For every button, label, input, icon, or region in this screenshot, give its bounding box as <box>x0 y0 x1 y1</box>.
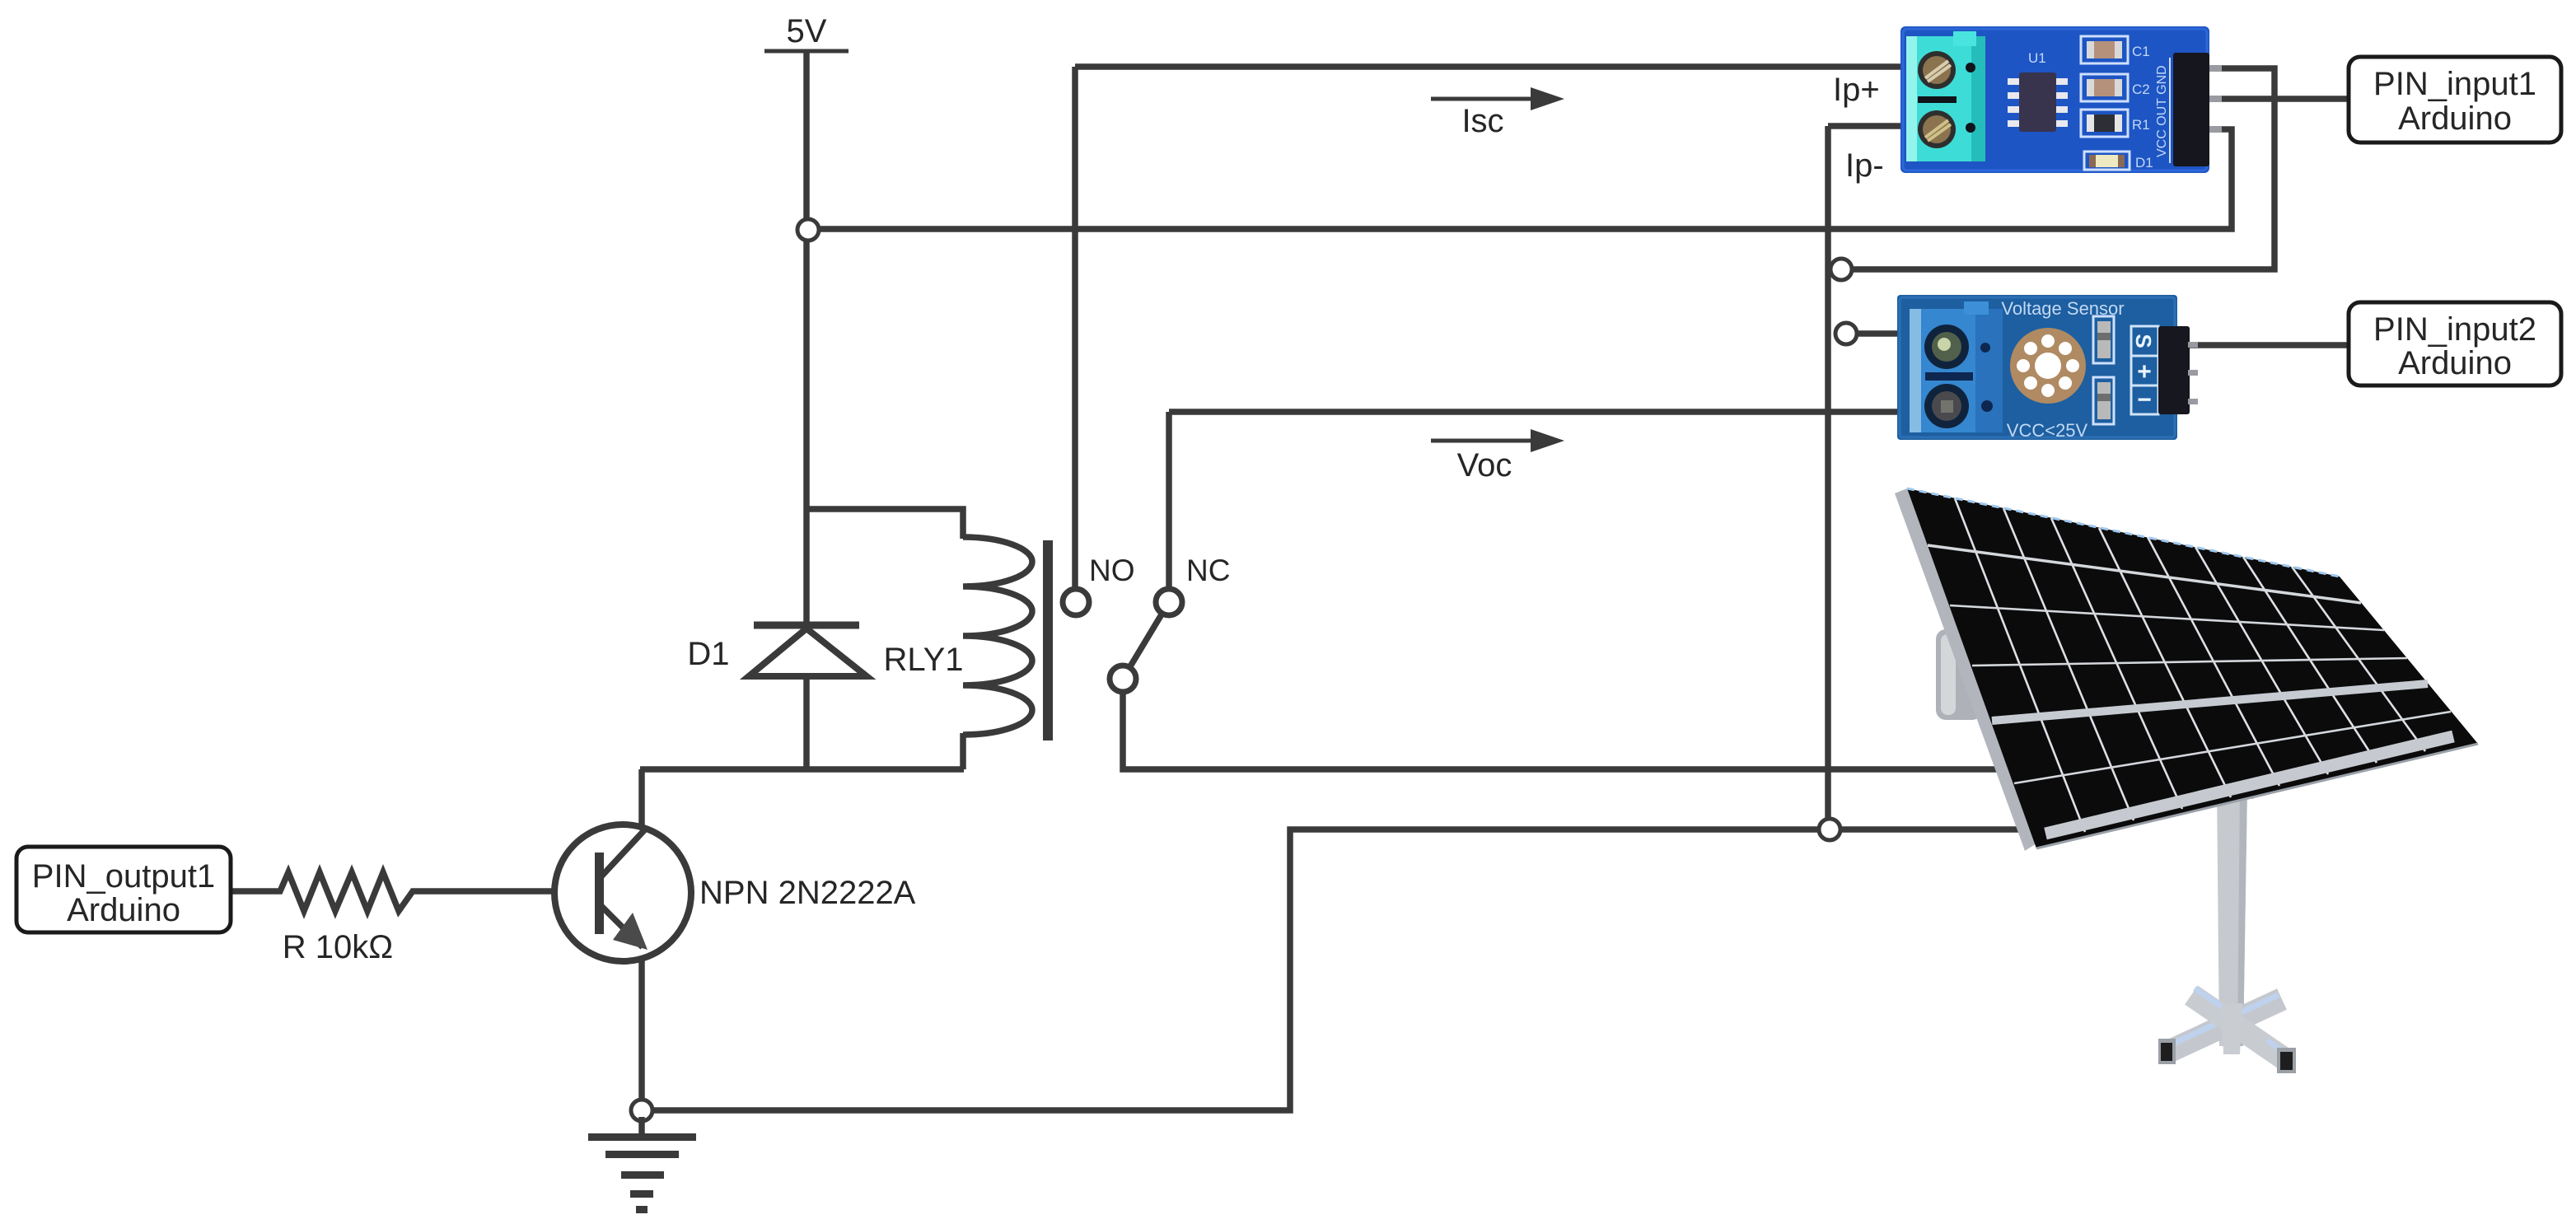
cross base arm nw-se <box>2191 995 2288 1062</box>
wire Voc run to voltage sensor VCC <box>1169 409 1919 415</box>
panel grid rows <box>1928 545 2451 783</box>
R1 <box>2081 110 2128 137</box>
current sensor module U1 (ACS712) <box>1900 26 2222 173</box>
svg-text:5V: 5V <box>787 13 827 49</box>
panel left frame <box>1895 488 2036 851</box>
wire bottom rail (collector - diode - coil) <box>640 766 964 773</box>
PIN_input1 Arduino box <box>2349 57 2561 142</box>
smd parts <box>2093 316 2114 363</box>
5V supply symbol <box>764 13 849 51</box>
wire sense common vertical <box>1825 126 1831 829</box>
svg-text:C2: C2 <box>2132 82 2150 97</box>
panel bottom frame rail <box>2045 736 2453 834</box>
svg-text:NPN 2N2222A: NPN 2N2222A <box>699 875 916 911</box>
wire 5V rail down to diode cathode <box>803 51 810 624</box>
svg-text:R1: R1 <box>2132 117 2150 133</box>
node B junction GND link <box>1830 259 1852 280</box>
relay RLY1 coil <box>883 537 1053 740</box>
wire Ip- stub <box>1828 123 1919 129</box>
resistor R1 10k <box>231 872 596 965</box>
C1 <box>2081 36 2128 63</box>
mounting plate <box>2211 779 2254 799</box>
svg-text:RLY1: RLY1 <box>883 642 963 678</box>
svg-text:Isc: Isc <box>1461 103 1503 139</box>
svg-text:PIN_input1: PIN_input1 <box>2373 66 2536 102</box>
svg-text:U1: U1 <box>2028 50 2046 66</box>
Voc voltage arrow <box>1431 429 1564 484</box>
wire switch common to panel positive <box>1123 690 2003 769</box>
wire NO contact drop <box>1072 67 1078 590</box>
wire emitter ground run to panel negative <box>642 829 2022 1110</box>
panel grid columns <box>1955 498 2425 832</box>
wire NC contact riser <box>1166 412 1172 589</box>
svg-text:S: S <box>2131 334 2156 348</box>
wire relay coil top feed <box>806 509 963 539</box>
relay common contact <box>1110 666 1136 692</box>
node E emitter junction <box>631 1100 652 1121</box>
base end caps <box>2158 1039 2176 1064</box>
svg-text:+: + <box>2137 358 2152 385</box>
terminal block <box>1910 309 2003 432</box>
svg-text:Arduino: Arduino <box>67 892 180 928</box>
D1 led <box>2084 152 2130 170</box>
svg-text:Voc: Voc <box>1457 447 1512 484</box>
svg-text:VCC OUT GND: VCC OUT GND <box>2155 65 2169 157</box>
voltage sensor module <box>1897 295 2198 441</box>
svg-text:PIN_input2: PIN_input2 <box>2373 311 2536 348</box>
ground <box>588 1133 696 1213</box>
pin header <box>2169 58 2171 163</box>
node D junction panel negative <box>1819 819 1840 840</box>
transistor Q1 NPN 2N2222A <box>554 769 916 1110</box>
diode D1 <box>687 625 867 676</box>
junction box cylinder behind panel <box>1936 629 1982 720</box>
solar panel assembly <box>1895 488 2478 1073</box>
svg-text:Ip+: Ip+ <box>1833 72 1880 108</box>
top edge highlight <box>1907 488 2340 577</box>
wire sensor OUT to PIN_input1 <box>2209 96 2349 102</box>
svg-text:NO: NO <box>1089 554 1135 587</box>
wire voltage sensor GND branch <box>1846 330 1907 337</box>
relay switch arm <box>1123 602 1169 679</box>
svg-text:D1: D1 <box>2135 155 2153 171</box>
svg-text:VCC<25V: VCC<25V <box>2007 420 2088 441</box>
wire sensor GND link <box>1840 68 2274 269</box>
wire voltage sensor S to PIN_input2 <box>2189 342 2349 348</box>
Isc current arrow <box>1431 87 1564 139</box>
svg-text:C1: C1 <box>2132 44 2150 59</box>
C2 <box>2081 74 2128 101</box>
svg-text:Arduino: Arduino <box>2398 100 2512 137</box>
node C junction voltage sensor GND <box>1835 323 1857 344</box>
gold ring <box>2010 328 2086 404</box>
svg-text:Arduino: Arduino <box>2398 345 2512 381</box>
relay NO contact <box>1063 589 1089 615</box>
header <box>2158 326 2190 414</box>
cross base arm sw-ne <box>2170 999 2282 1051</box>
node A junction on 5V rail <box>797 219 819 241</box>
panel face <box>1907 488 2478 848</box>
wire diode anode lead <box>803 674 810 769</box>
terminal block Ip <box>1906 36 1985 161</box>
PIN_output1 Arduino box <box>16 847 231 932</box>
svg-text:NC: NC <box>1186 554 1230 587</box>
relay NC contact <box>1156 589 1182 615</box>
wire 5V junction to sensor VCC <box>809 129 2232 229</box>
wire relay coil bottom lead <box>960 733 966 769</box>
pole foot over base <box>2222 1003 2242 1054</box>
S + - labels <box>2131 326 2158 414</box>
svg-text:−: − <box>2137 386 2152 413</box>
svg-text:PIN_output1: PIN_output1 <box>32 858 215 895</box>
PIN_input2 Arduino box <box>2349 302 2561 385</box>
wire emitter to ground <box>638 1117 645 1135</box>
pole <box>2217 787 2247 1046</box>
svg-text:R 10kΩ: R 10kΩ <box>283 929 393 965</box>
svg-text:D1: D1 <box>687 636 729 672</box>
wire Ip+ top run <box>1075 63 1919 70</box>
svg-text:Ip-: Ip- <box>1845 147 1884 184</box>
